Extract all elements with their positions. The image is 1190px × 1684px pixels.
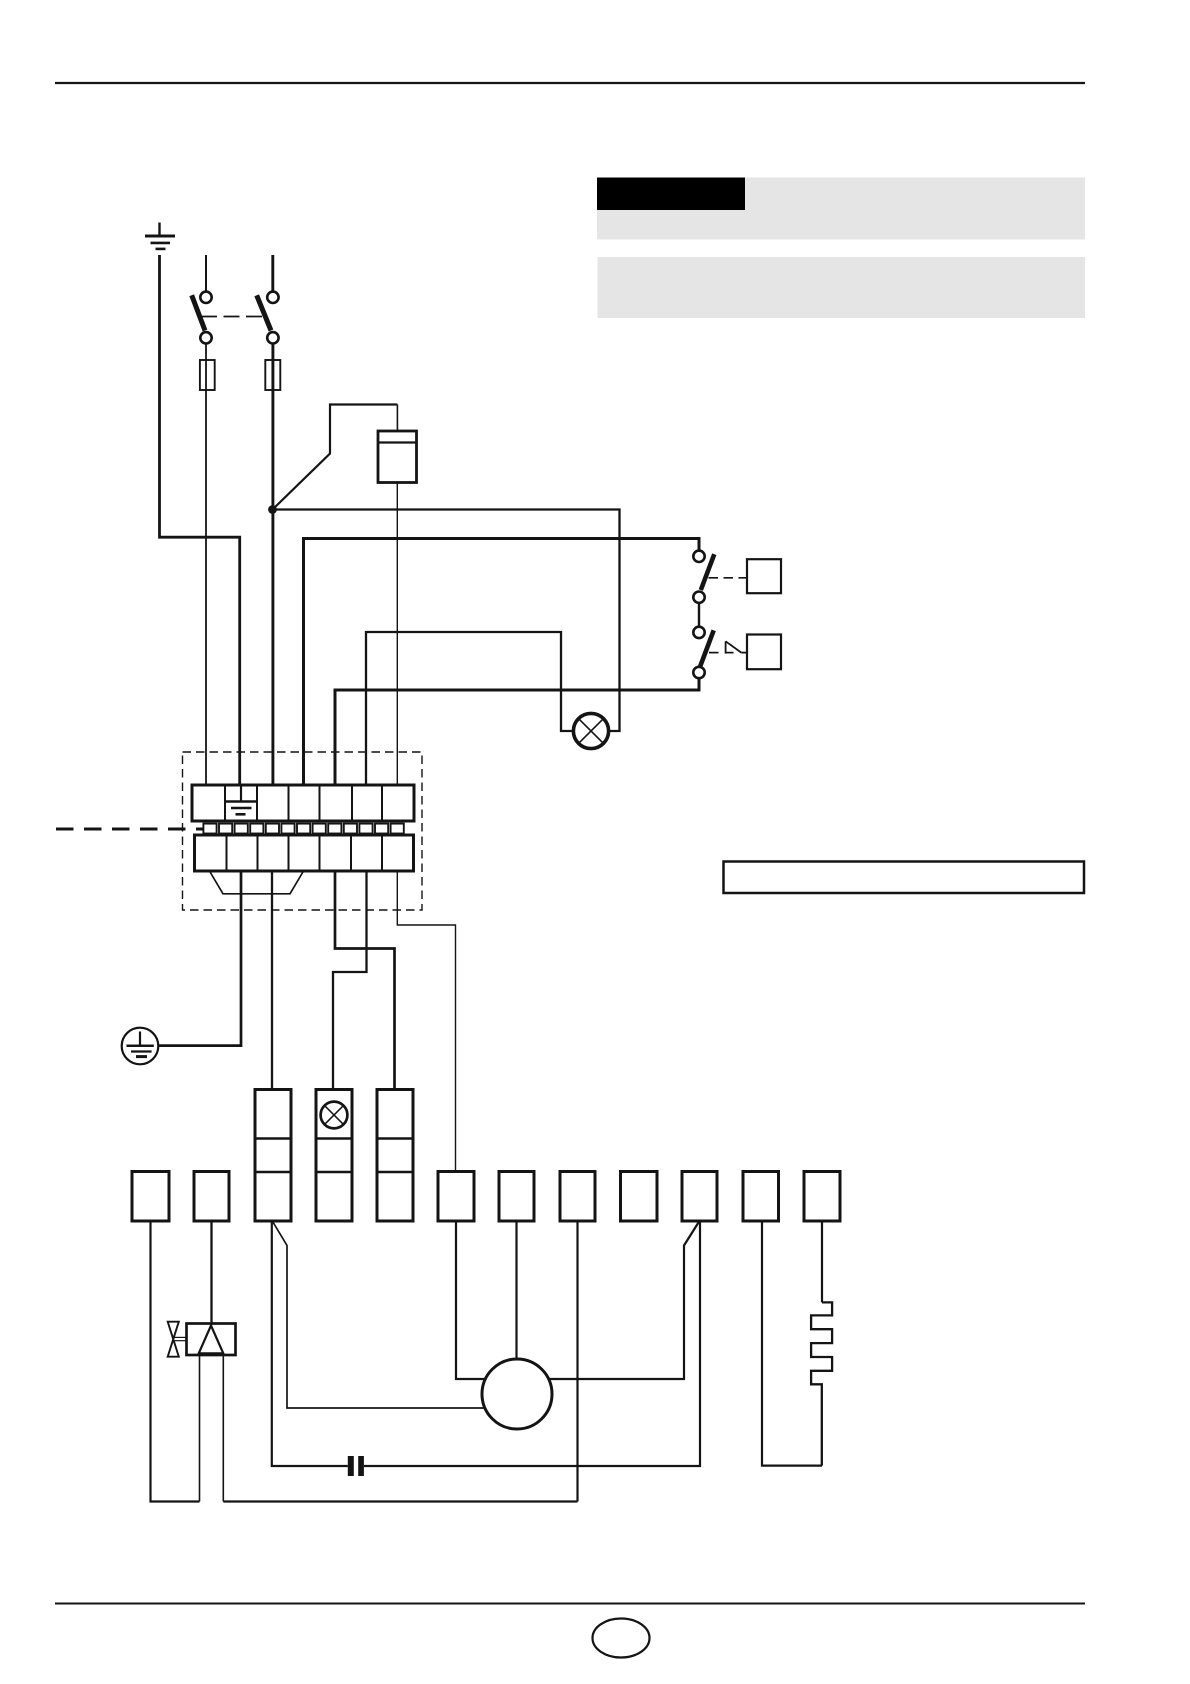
wire terminal to protective earth [158, 871, 241, 1046]
fuse F1 [200, 360, 215, 390]
wire between thermostat poles [698, 603, 700, 627]
terminal middle contact squares [203, 824, 403, 834]
wire S2 to valve coil [210, 1221, 212, 1325]
wire transformer secondary to connector S6 [397, 871, 455, 1172]
cable trapezoid under terminal [210, 871, 304, 894]
wire net to thermostat top (y538) [304, 539, 700, 786]
connector S8 [560, 1172, 595, 1222]
sensor box B2 [747, 635, 781, 670]
connector S2 [194, 1172, 229, 1222]
wire L2 down through fuse to terminal [271, 344, 274, 786]
wire terminal to relay K1 [271, 871, 273, 1090]
wire neutral return to S8 [223, 1500, 577, 1502]
connector S10 [682, 1172, 717, 1222]
wire S7 to motor top [515, 1221, 517, 1359]
wire terminal to relay K3 (jog right) [335, 871, 395, 1090]
thermostat switch B2 lower [693, 627, 713, 679]
note box [724, 862, 1085, 894]
relay block K2 with lamp [316, 1090, 352, 1222]
dashed actuator link upper [709, 577, 748, 579]
switch Q1 pole b [257, 292, 279, 344]
connector S11 [743, 1172, 779, 1222]
wire motor aux right to S10 [548, 1221, 699, 1379]
terminal strip lower row X2 [195, 835, 414, 871]
wire S1 loop to valve return [151, 1221, 200, 1502]
ground symbol (mains earth) [145, 223, 175, 249]
header rule [55, 82, 1085, 84]
wire earth conductor to terminal [160, 255, 240, 785]
connector S9 [621, 1172, 658, 1222]
wire S12 to heater [821, 1221, 823, 1302]
wire S8 drop [576, 1221, 578, 1502]
relay block K1 [255, 1090, 291, 1222]
switch Q1 pole a [192, 292, 212, 344]
node junction on L2 [268, 505, 277, 514]
terminal earth cell divider [225, 800, 257, 802]
legend gray band 2 [598, 257, 1086, 318]
wire L1 stub [205, 255, 207, 292]
switch link (dashed gang) [201, 316, 263, 318]
transformer T1 [378, 431, 417, 483]
wire capacitor to S10 [364, 1221, 700, 1466]
lamp H2 inside K2 [321, 1102, 348, 1129]
wire K1 to motor main [272, 1221, 485, 1408]
heater element R1 meander [811, 1302, 832, 1465]
wire S6 to motor aux left [456, 1221, 486, 1379]
wire transformer secondary down to terminal [396, 483, 398, 785]
wire net junction to lamp (y509) [273, 510, 620, 732]
wire S11 to heater return [762, 1221, 822, 1466]
footer rule [55, 1603, 1085, 1605]
connector S1 [132, 1172, 169, 1222]
wire terminal to relay K2 (jog left) [333, 871, 367, 1090]
connector S6 [438, 1172, 474, 1222]
sensor box B1 [747, 559, 781, 593]
legend gray band 1 [597, 178, 1085, 240]
wire K1 to capacitor net [272, 1221, 348, 1466]
solenoid valve Y1 [168, 1322, 236, 1357]
terminal earth cell symbol [231, 785, 252, 814]
wire L2 stub [271, 255, 274, 292]
connector S7 [499, 1172, 534, 1222]
connector S12 [804, 1172, 840, 1222]
lamp H1 [573, 713, 608, 748]
footer ellipse logo [593, 1619, 650, 1658]
wire valve left leg [199, 1355, 201, 1502]
legend black title bar [597, 178, 745, 211]
relay block K3 [377, 1090, 413, 1222]
terminal strip upper row X1 [192, 785, 414, 821]
wire net thermostat bottom (y690) [335, 677, 699, 785]
thermostat switch B1 upper [693, 551, 714, 603]
boundary dashed frame (appliance outline) [183, 752, 423, 910]
wire junction to transformer primary [273, 405, 398, 510]
motor M1 [482, 1359, 552, 1429]
capacitor C1 [348, 1456, 364, 1476]
wire net to lamp left (y632) [366, 632, 573, 785]
protective earth symbol PE [122, 1028, 159, 1065]
fuse F2 [265, 360, 280, 390]
section dash line [56, 828, 203, 831]
wire valve right leg [222, 1355, 224, 1501]
wire L1 down through fuse [205, 344, 207, 786]
dashed actuator link lower with limiter flag [709, 641, 747, 653]
